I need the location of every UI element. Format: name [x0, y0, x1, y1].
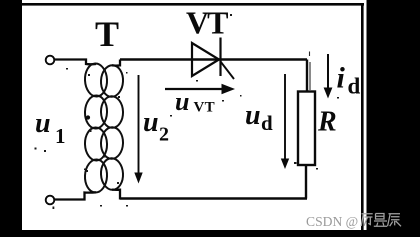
svg-text:u: u [245, 100, 261, 131]
resistor R box [298, 92, 315, 166]
svg-text:u: u [143, 107, 159, 138]
thyristor VT gate lead [221, 62, 235, 80]
svg-text:R: R [317, 107, 337, 138]
annotation arrow id (down) [327, 54, 329, 90]
scan noise speckles [35, 14, 340, 209]
svg-text:u: u [35, 108, 51, 139]
wire: resistor bottom down [305, 165, 307, 199]
wire: top horizontal (secondary to right corner) [120, 58, 307, 60]
wire: bottom-left terminal to primary bottom [55, 192, 96, 199]
frame: right border line [361, 3, 364, 231]
frame: right black margin [367, 0, 420, 237]
polarity dot (primary) [86, 115, 90, 119]
svg-text:d: d [261, 111, 273, 135]
svg-text:VT: VT [186, 5, 228, 41]
wire: secondary top step [112, 60, 120, 66]
svg-text:i: i [337, 62, 346, 95]
glyph 2 [374, 214, 388, 227]
wire: right corner down to resistor top [306, 60, 308, 93]
svg-text:VT: VT [194, 100, 215, 116]
thyristor VT cathode bar [219, 38, 221, 77]
annotation arrow u2 (down) [138, 75, 140, 175]
wire: bottom horizontal [120, 197, 307, 200]
svg-text:d: d [348, 74, 361, 99]
annotation arrow uVT (right) [165, 88, 225, 90]
svg-text:1: 1 [55, 124, 66, 148]
thyristor VT triangle [192, 43, 219, 76]
frame: left black margin [0, 0, 22, 237]
terminal: top-left input [46, 56, 55, 65]
terminal: bottom-left input [46, 196, 55, 205]
transformer T primary winding [84, 63, 108, 193]
wire: scan ghost double line [309, 62, 311, 90]
svg-text:2: 2 [159, 124, 169, 146]
wire: top-left terminal to primary top [55, 60, 96, 65]
watermark: CJK glyphs (approximated strokes) [361, 214, 401, 227]
frame: top border line [21, 3, 364, 6]
svg-text:u: u [175, 87, 189, 116]
wire: secondary bottom step [112, 190, 120, 200]
glyph 3 [388, 214, 401, 227]
svg-text:T: T [95, 14, 119, 54]
svg-text:CSDN @: CSDN @ [306, 214, 358, 229]
annotation arrow ud (down) [284, 74, 286, 161]
frame: bottom black band [0, 230, 420, 237]
glyph 1 [361, 214, 373, 226]
transformer T secondary winding [100, 65, 124, 191]
